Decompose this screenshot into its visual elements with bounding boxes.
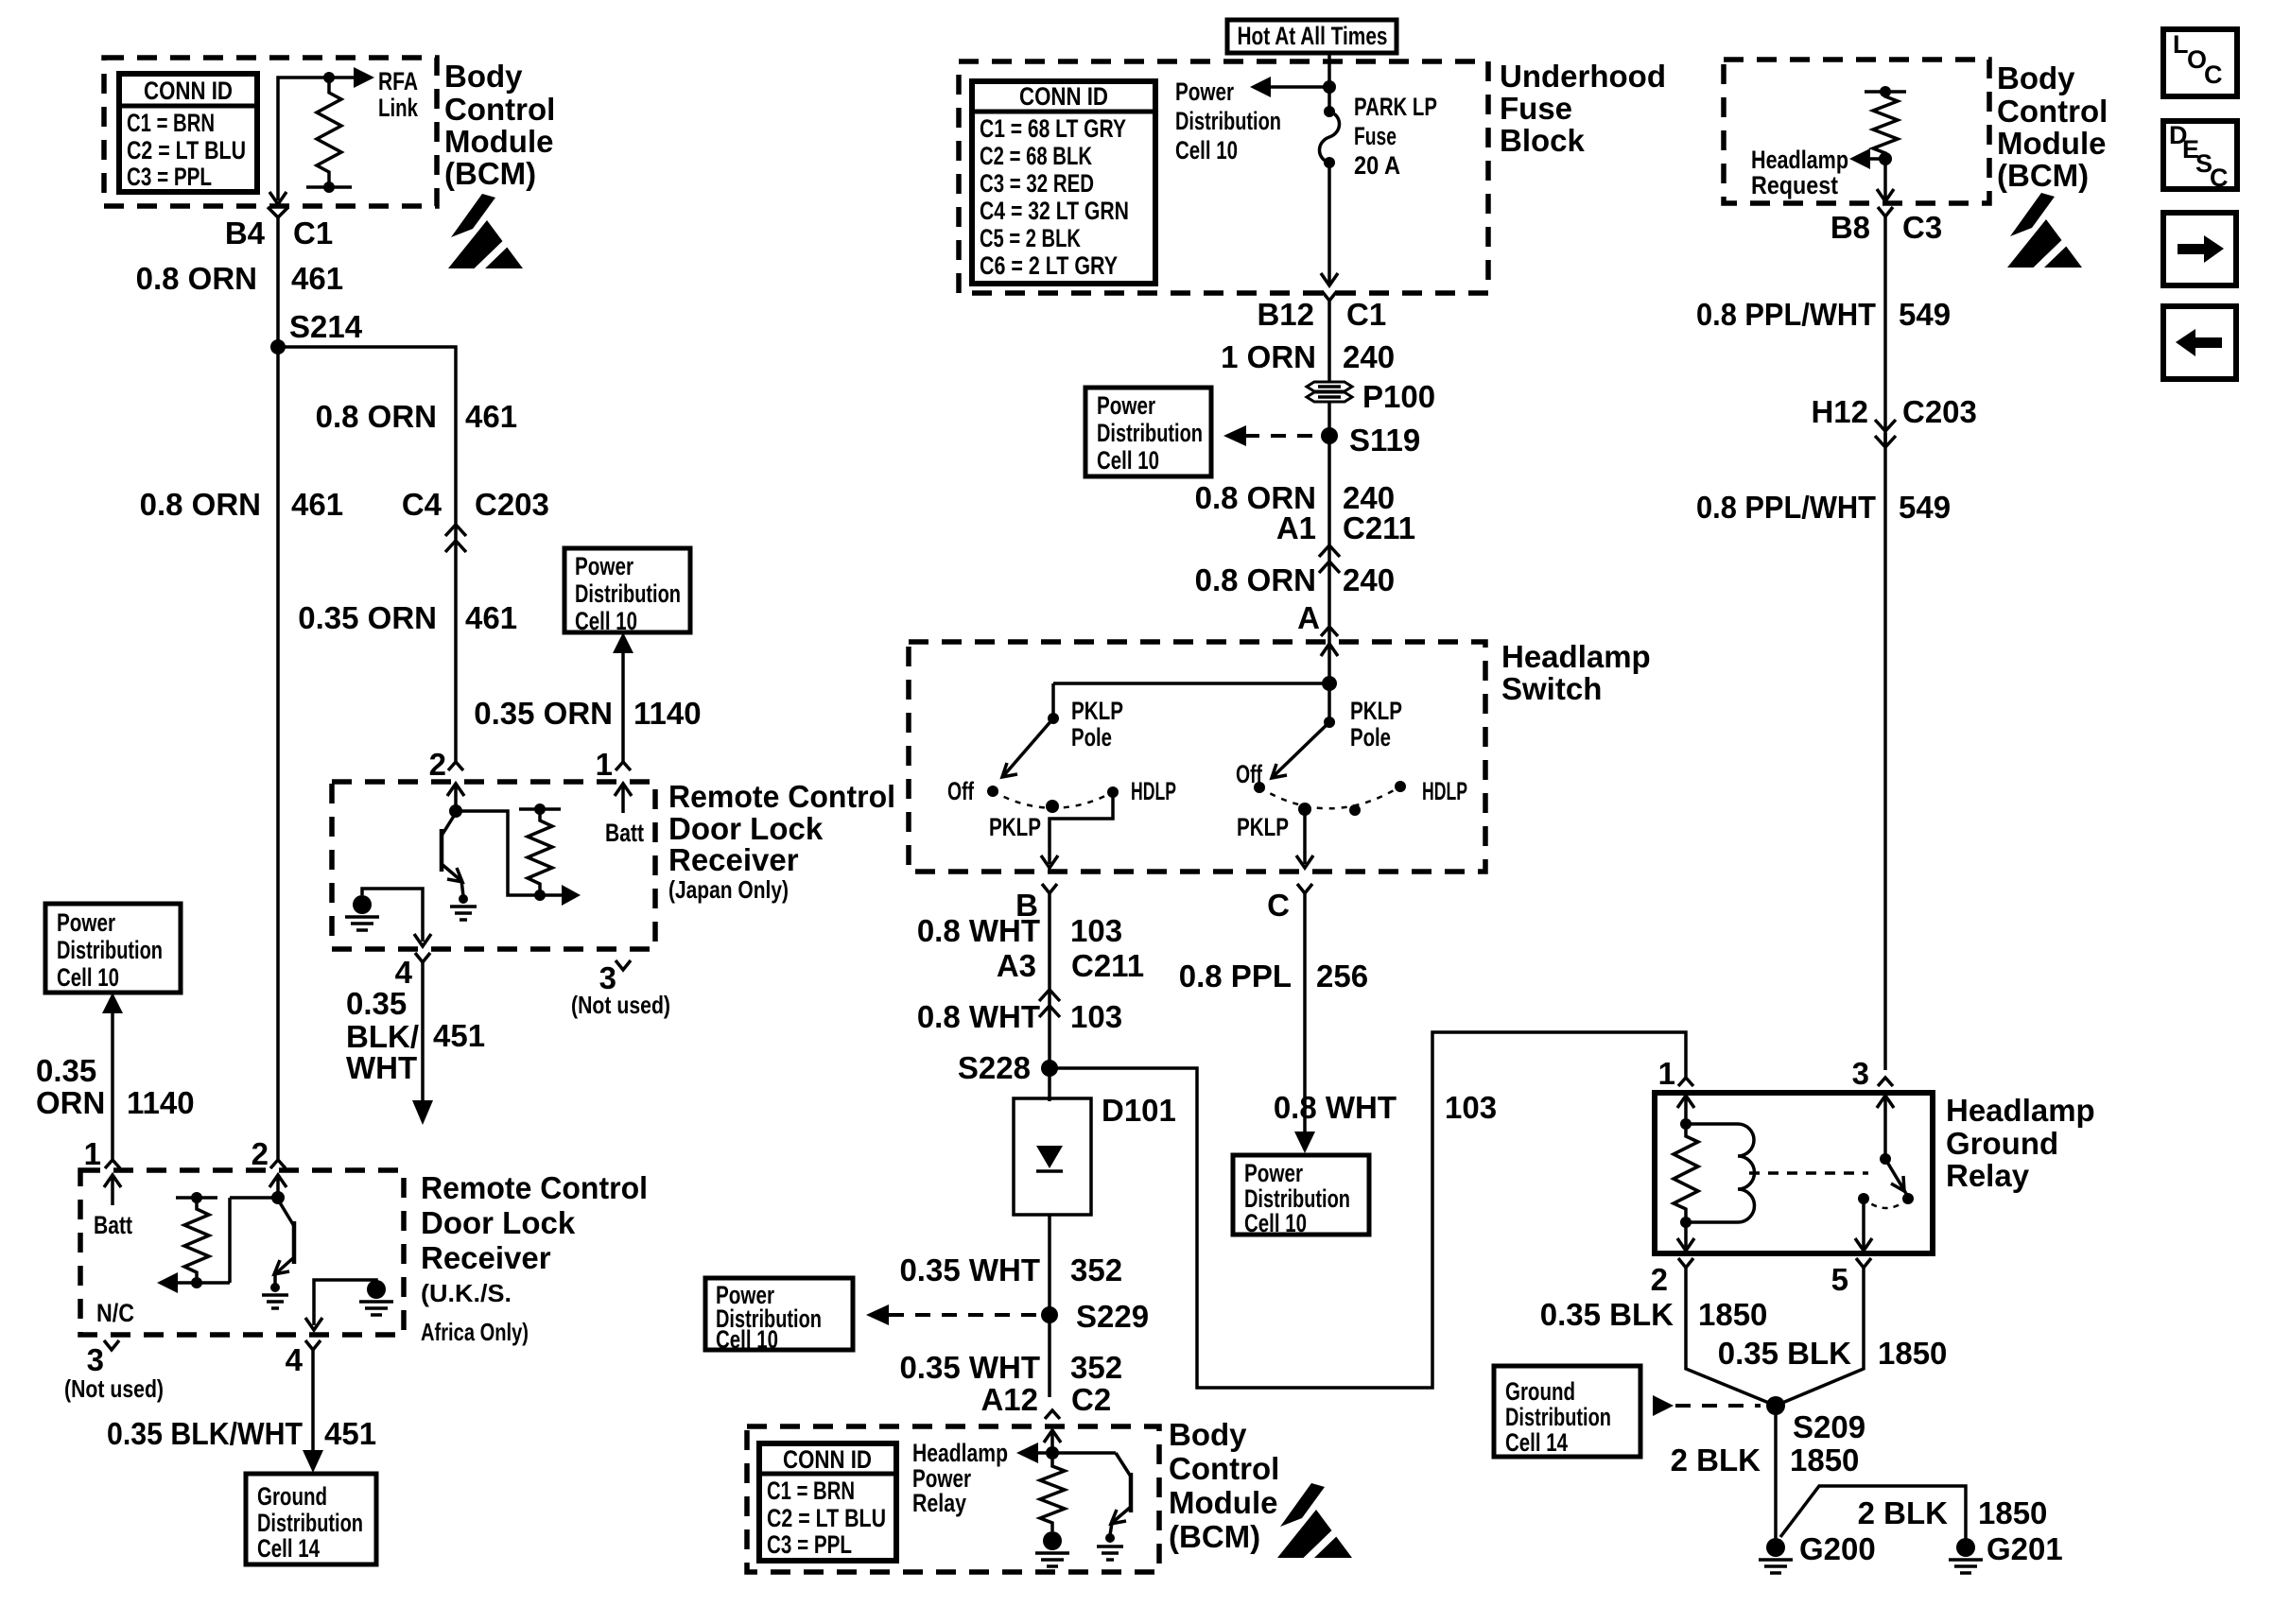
svg-text:2 BLK: 2 BLK <box>1858 1495 1949 1530</box>
svg-text:1850: 1850 <box>1978 1495 2047 1530</box>
svg-text:0.8 WHT: 0.8 WHT <box>917 913 1040 948</box>
Body Control Module (BCM) label <box>444 59 555 191</box>
svg-text:Remote Control: Remote Control <box>421 1170 648 1205</box>
node feed <box>1322 676 1337 691</box>
svg-text:(Not used): (Not used) <box>571 991 670 1019</box>
pin C arrow out <box>1296 855 1313 868</box>
svg-text:240: 240 <box>1343 339 1395 374</box>
svg-text:CONN ID: CONN ID <box>1019 82 1108 111</box>
svg-text:451: 451 <box>324 1416 376 1451</box>
svg-text:PKLP: PKLP <box>1350 697 1402 725</box>
svg-text:BLK/: BLK/ <box>346 1019 419 1054</box>
svg-text:103: 103 <box>1070 999 1122 1034</box>
wire BCM1 internal feed <box>278 78 329 200</box>
CONN ID table (BCM1) <box>119 74 257 192</box>
svg-text:C3 = 32 RED: C3 = 32 RED <box>980 169 1094 198</box>
pin 1 connector fork <box>616 762 631 770</box>
pin arrow out bottom (fuse block) <box>1321 273 1338 285</box>
svg-text:1: 1 <box>84 1136 101 1171</box>
right arrow box <box>2163 213 2236 285</box>
svg-text:0.35 BLK: 0.35 BLK <box>1540 1297 1674 1332</box>
svg-text:Hot At All Times: Hot At All Times <box>1238 22 1388 50</box>
wire fuse to edge <box>1327 163 1331 285</box>
dashed reference ground distribution <box>1675 1404 1761 1408</box>
dashed contact arc (right) <box>1259 786 1400 808</box>
svg-text:PKLP: PKLP <box>1071 697 1123 725</box>
svg-text:Distribution: Distribution <box>1505 1403 1611 1431</box>
ESD symbol BCM1 <box>448 194 526 275</box>
svg-text:(BCM): (BCM) <box>1169 1519 1260 1554</box>
arrow into power distribution (C wire) <box>1294 1132 1315 1153</box>
headlamp switch label <box>1501 639 1651 706</box>
svg-text:Power: Power <box>1175 78 1234 106</box>
arrow to power distribution (text) <box>1267 85 1329 89</box>
svg-text:Pole: Pole <box>1350 723 1391 752</box>
svg-text:256: 256 <box>1316 959 1368 993</box>
body control module (bottom) label <box>1169 1417 1279 1554</box>
svg-text:Module: Module <box>444 124 553 159</box>
svg-text:549: 549 <box>1899 490 1951 525</box>
pin 2 connector fork (UK) <box>270 1160 286 1168</box>
wire to output <box>456 811 565 895</box>
receiver (Japan) dashed box <box>332 782 655 949</box>
body control module (right) dashed box <box>1724 60 1989 203</box>
svg-text:Cell 10: Cell 10 <box>57 963 119 992</box>
arrow end of 451 wire <box>412 1100 433 1125</box>
svg-text:5: 5 <box>1831 1262 1848 1297</box>
svg-text:Request: Request <box>1751 171 1838 199</box>
svg-text:0.35 WHT: 0.35 WHT <box>899 1350 1040 1385</box>
svg-text:3: 3 <box>87 1342 104 1377</box>
CONN ID table (bottom BCM) <box>759 1443 896 1561</box>
wire branch to C203 <box>278 347 456 541</box>
svg-text:Ground: Ground <box>1505 1377 1575 1406</box>
DESC box <box>2163 121 2237 192</box>
wire 256 <box>1303 893 1307 1139</box>
svg-text:C: C <box>2210 164 2229 192</box>
svg-text:Pole: Pole <box>1071 723 1112 752</box>
power distribution box (S119) <box>1085 388 1211 476</box>
hot at all times box <box>1227 20 1397 53</box>
svg-text:461: 461 <box>291 261 343 296</box>
svg-text:C203: C203 <box>475 487 549 522</box>
svg-text:0.35 BLK: 0.35 BLK <box>1718 1336 1851 1371</box>
pin 1 arrow in <box>1677 1096 1694 1108</box>
svg-text:2 BLK: 2 BLK <box>1671 1443 1761 1477</box>
svg-text:Fuse: Fuse <box>1500 91 1572 126</box>
svg-text:1140: 1140 <box>127 1085 195 1120</box>
left pole arrow to Off <box>1004 718 1053 775</box>
svg-text:0.35 BLK/WHT: 0.35 BLK/WHT <box>107 1416 303 1451</box>
connector B <box>1042 884 1057 893</box>
svg-text:(Japan Only): (Japan Only) <box>668 875 789 904</box>
svg-text:549: 549 <box>1899 297 1951 332</box>
svg-text:C203: C203 <box>1902 394 1977 429</box>
svg-text:Cell 10: Cell 10 <box>575 607 637 635</box>
svg-text:Module: Module <box>1169 1485 1277 1520</box>
node headlamp request <box>1879 152 1892 165</box>
svg-text:Door Lock: Door Lock <box>668 811 824 846</box>
wire 1140 (lower) <box>111 1012 114 1160</box>
svg-text:0.8 ORN: 0.8 ORN <box>1195 562 1316 597</box>
svg-text:D101: D101 <box>1102 1093 1176 1128</box>
svg-text:C2 = LT BLU: C2 = LT BLU <box>767 1504 886 1532</box>
wire 1140 to pin1 <box>621 652 625 762</box>
dashed reference to power distribution (S229) <box>889 1313 1036 1317</box>
headlamp power relay arrow <box>1036 1451 1116 1455</box>
svg-text:240: 240 <box>1343 562 1395 597</box>
transistor Q (Japan) <box>442 813 463 896</box>
svg-text:B12: B12 <box>1257 297 1314 332</box>
svg-text:B8: B8 <box>1831 210 1870 245</box>
svg-text:Power: Power <box>1244 1159 1303 1187</box>
headlamp ground relay box <box>1655 1093 1933 1253</box>
svg-text:Cell 10: Cell 10 <box>1097 446 1159 475</box>
pin A arrow in <box>1321 644 1338 656</box>
svg-text:0.35 ORN: 0.35 ORN <box>298 600 437 635</box>
svg-text:Receiver: Receiver <box>421 1240 551 1275</box>
svg-text:1140: 1140 <box>633 696 702 731</box>
receiver (UK) dashed box <box>80 1170 404 1335</box>
svg-text:Cell 10: Cell 10 <box>1244 1209 1307 1237</box>
connector B12/C1 <box>1322 291 1337 301</box>
pin 4 arrow out <box>414 934 431 946</box>
pin 4 connector fork (UK) <box>305 1340 321 1350</box>
svg-text:A12: A12 <box>980 1382 1038 1417</box>
svg-text:0.8 WHT: 0.8 WHT <box>917 999 1040 1034</box>
svg-text:461: 461 <box>291 487 343 522</box>
svg-text:A1: A1 <box>1276 510 1316 545</box>
ground distribution cell 14 box (right) <box>1494 1366 1640 1457</box>
svg-text:(BCM): (BCM) <box>444 156 536 191</box>
pin 5 connector fork <box>1856 1258 1871 1268</box>
headlamp switch dashed box <box>909 642 1485 872</box>
body control module (bottom) dashed box <box>747 1426 1159 1572</box>
svg-text:Remote Control: Remote Control <box>668 779 895 814</box>
pin 4 connector fork <box>415 953 430 962</box>
pin 3 connector fork <box>1878 1078 1893 1086</box>
svg-text:Module: Module <box>1997 126 2106 161</box>
svg-text:S119: S119 <box>1349 423 1420 458</box>
svg-text:Relay: Relay <box>912 1489 966 1517</box>
svg-text:1850: 1850 <box>1790 1443 1859 1477</box>
Batt arrow pin 1 (Japan) <box>615 784 632 796</box>
ground (left Japan) <box>345 895 379 930</box>
svg-text:Cell 14: Cell 14 <box>1505 1428 1568 1457</box>
svg-text:1850: 1850 <box>1698 1297 1767 1332</box>
connector C <box>1297 884 1312 893</box>
ground (transistor bottom BCM) <box>1097 1533 1123 1560</box>
svg-text:C: C <box>1267 888 1290 923</box>
svg-text:461: 461 <box>465 399 517 434</box>
svg-text:WHT: WHT <box>346 1050 417 1085</box>
receiver (Japan) label <box>668 779 895 904</box>
N/C arrow and link wire (UK) <box>230 1196 278 1200</box>
relay switch <box>1880 1153 1891 1165</box>
pin 1 connector fork (UK) <box>105 1160 120 1168</box>
receiver (UK) label <box>421 1170 648 1346</box>
power distribution box (mid-left) <box>564 548 690 635</box>
svg-text:1: 1 <box>596 747 613 782</box>
node power dist tap <box>1323 80 1336 94</box>
svg-text:PKLP: PKLP <box>989 813 1041 841</box>
svg-text:0.35 ORN: 0.35 ORN <box>474 696 613 731</box>
node RFA link bottom <box>323 181 335 193</box>
svg-text:Control: Control <box>1169 1451 1279 1486</box>
pin B arrow out <box>1041 855 1058 868</box>
svg-text:B4: B4 <box>225 216 266 251</box>
svg-text:S229: S229 <box>1076 1299 1149 1334</box>
node <box>1046 1446 1059 1460</box>
svg-text:20 A: 20 A <box>1354 151 1400 180</box>
wire 461 branch lower <box>454 541 458 762</box>
svg-text:C: C <box>2204 60 2223 89</box>
svg-text:Off: Off <box>947 777 975 805</box>
pin 2 connector fork <box>448 762 463 770</box>
splice S229 <box>1041 1306 1058 1323</box>
svg-text:C3 = PPL: C3 = PPL <box>127 163 212 191</box>
svg-text:(BCM): (BCM) <box>1997 158 2089 193</box>
svg-text:Power: Power <box>575 552 633 580</box>
svg-text:C2 = LT BLU: C2 = LT BLU <box>127 136 246 164</box>
left pole <box>1051 683 1055 718</box>
left contacts Off/PKLP/HDLP <box>987 786 998 797</box>
pin 3 connector (Japan, not used) <box>616 960 631 970</box>
connector B8/C3 <box>1878 207 1893 216</box>
svg-text:103: 103 <box>1445 1090 1497 1125</box>
svg-text:Relay: Relay <box>1946 1158 2030 1193</box>
pin A12 arrow in <box>1044 1430 1061 1443</box>
right ground (UK) <box>314 1280 393 1325</box>
diode D101 <box>1014 1093 1176 1215</box>
body control module BCM1 dashed box <box>104 58 437 206</box>
svg-text:Control: Control <box>444 92 555 127</box>
svg-text:Distribution: Distribution <box>575 579 681 608</box>
svg-text:C4 = 32 LT GRN: C4 = 32 LT GRN <box>980 197 1129 225</box>
arrow up into power distribution box <box>613 632 633 653</box>
svg-text:Distribution: Distribution <box>257 1509 363 1537</box>
svg-text:HDLP: HDLP <box>1131 777 1176 805</box>
svg-text:Door Lock: Door Lock <box>421 1205 576 1240</box>
ground ball (bottom BCM) <box>1035 1531 1069 1566</box>
headlamp ground relay label <box>1946 1093 2095 1193</box>
svg-text:2: 2 <box>252 1136 269 1171</box>
svg-text:C1: C1 <box>1346 297 1386 332</box>
svg-text:Cell 14: Cell 14 <box>257 1534 320 1563</box>
underhood fuse block dashed box <box>959 61 1488 293</box>
resistor (bottom BCM) <box>1040 1460 1065 1531</box>
svg-text:(U.K./S.: (U.K./S. <box>421 1279 512 1307</box>
pin 1 Batt arrow in (UK) <box>104 1175 121 1187</box>
svg-text:H12: H12 <box>1811 394 1868 429</box>
svg-text:A: A <box>1297 600 1320 635</box>
relay resistor <box>1680 1118 1692 1130</box>
node on RFA link top <box>323 72 335 83</box>
left arrow box <box>2163 306 2236 379</box>
svg-text:Headlamp: Headlamp <box>912 1439 1008 1467</box>
pin 2 arrow out <box>1684 1222 1688 1250</box>
svg-text:C6 = 2 LT GRY: C6 = 2 LT GRY <box>980 251 1118 280</box>
wire pin2 to S209 <box>1686 1268 1776 1406</box>
transistor (bottom BCM) <box>1110 1453 1131 1535</box>
pin 3 arrow in <box>1877 1096 1894 1108</box>
svg-text:0.35: 0.35 <box>346 986 407 1021</box>
svg-text:ORN: ORN <box>36 1085 105 1120</box>
svg-text:PARK LP: PARK LP <box>1354 93 1437 121</box>
svg-text:C1 = 68 LT GRY: C1 = 68 LT GRY <box>980 114 1126 143</box>
svg-text:1850: 1850 <box>1878 1336 1947 1371</box>
svg-text:C1: C1 <box>293 216 333 251</box>
resistor (headlamp request) <box>1865 90 1906 94</box>
svg-text:0.8 PPL/WHT: 0.8 PPL/WHT <box>1696 490 1876 525</box>
svg-text:1: 1 <box>1658 1056 1675 1091</box>
pin 2 arrow in (UK) <box>269 1175 286 1187</box>
wire feed to left pole <box>1053 682 1329 685</box>
svg-text:Ground: Ground <box>257 1482 327 1511</box>
svg-text:4: 4 <box>286 1342 304 1377</box>
svg-text:Headlamp: Headlamp <box>1501 639 1651 674</box>
wire S228 to relay pin 1 <box>1050 1032 1686 1388</box>
svg-text:0.8 ORN: 0.8 ORN <box>140 487 261 522</box>
svg-text:0.8 ORN: 0.8 ORN <box>136 261 257 296</box>
CONN ID table (fuse block) <box>972 81 1155 284</box>
pin 2 arrow in <box>447 784 464 796</box>
svg-text:352: 352 <box>1070 1350 1122 1385</box>
ground G200 <box>1759 1538 1793 1573</box>
svg-text:Body: Body <box>1997 60 2075 95</box>
splice S119 <box>1321 427 1338 444</box>
fuse PARK LP 20A <box>1320 106 1340 168</box>
svg-text:PKLP: PKLP <box>1237 813 1289 841</box>
svg-text:(Not used): (Not used) <box>64 1374 164 1403</box>
svg-text:0.35: 0.35 <box>36 1053 96 1088</box>
svg-text:Off: Off <box>1236 760 1263 788</box>
svg-text:0.8 ORN: 0.8 ORN <box>316 399 437 434</box>
arrow into ground distribution box <box>303 1450 323 1473</box>
splice S209 <box>1766 1396 1785 1415</box>
svg-text:Body: Body <box>444 59 523 94</box>
ground distribution cell 14 box <box>246 1474 376 1564</box>
svg-text:S214: S214 <box>289 309 363 344</box>
relay coil <box>1686 1122 1738 1126</box>
power distribution box (lower-left) <box>45 904 181 993</box>
power distribution cell 10 text (fuse block) <box>1175 78 1281 164</box>
branch wire to G201 <box>1780 1486 1966 1539</box>
svg-text:N/C: N/C <box>96 1299 134 1327</box>
svg-text:103: 103 <box>1070 913 1122 948</box>
wire hot feed <box>1327 53 1331 112</box>
svg-text:HDLP: HDLP <box>1422 777 1467 805</box>
svg-text:C2: C2 <box>1071 1382 1111 1417</box>
svg-text:Headlamp: Headlamp <box>1946 1093 2095 1128</box>
svg-text:S228: S228 <box>958 1050 1031 1085</box>
resistor (UK) <box>176 1196 217 1200</box>
dashed reference to power distribution <box>1244 434 1318 438</box>
svg-text:CONN ID: CONN ID <box>783 1445 872 1474</box>
node <box>449 804 462 818</box>
svg-text:Cell 10: Cell 10 <box>716 1325 778 1354</box>
svg-text:S209: S209 <box>1793 1409 1865 1444</box>
dashed contact arc (left) <box>993 791 1113 808</box>
ground G201 <box>1949 1538 1983 1573</box>
svg-text:Batt: Batt <box>605 819 644 847</box>
headlamp request arrow <box>1868 157 1885 161</box>
svg-text:Africa Only): Africa Only) <box>421 1318 529 1346</box>
resistor RFA link <box>317 78 341 187</box>
svg-text:P100: P100 <box>1362 379 1435 414</box>
svg-text:Headlamp: Headlamp <box>1751 146 1848 174</box>
pin 1 connector fork <box>1678 1078 1693 1086</box>
svg-text:0.35 WHT: 0.35 WHT <box>899 1253 1040 1287</box>
svg-text:Cell 10: Cell 10 <box>1175 136 1238 164</box>
svg-text:Distribution: Distribution <box>1175 107 1281 135</box>
right pole <box>1327 683 1331 722</box>
svg-text:352: 352 <box>1070 1253 1122 1287</box>
ground (transistor Japan) <box>450 894 477 920</box>
wire 549 upper <box>1883 216 1887 444</box>
body control module (right) label <box>1997 60 2108 193</box>
svg-text:Batt: Batt <box>94 1211 132 1239</box>
pin 4 arrow out (UK) <box>305 1318 322 1330</box>
svg-text:4: 4 <box>395 955 413 990</box>
svg-text:CONN ID: CONN ID <box>144 77 233 105</box>
svg-text:C2 = 68 BLK: C2 = 68 BLK <box>980 142 1092 170</box>
svg-text:C4: C4 <box>402 487 442 522</box>
svg-text:G200: G200 <box>1799 1531 1876 1566</box>
wire 240 (1 ORN) <box>1327 301 1331 382</box>
wire S209 to G200 <box>1774 1406 1778 1539</box>
svg-text:Distribution: Distribution <box>57 936 163 964</box>
pin arrow out bottom of BCM1 <box>269 192 286 204</box>
svg-text:Receiver: Receiver <box>668 842 799 877</box>
wire pin5 to S209 <box>1776 1268 1864 1406</box>
right contacts <box>1254 782 1265 793</box>
svg-text:A3: A3 <box>997 948 1036 983</box>
wire 549 lower <box>1883 433 1887 1070</box>
ESD symbol (bottom BCM) <box>1277 1483 1355 1564</box>
power distribution box (C wire) <box>1233 1155 1369 1237</box>
pin 5 arrow out <box>1862 1199 1865 1250</box>
right pole arrow to Off <box>1274 722 1329 776</box>
svg-text:RFA: RFA <box>378 67 418 95</box>
wire D101 to S229 <box>1048 1215 1051 1397</box>
svg-text:Switch: Switch <box>1501 671 1602 706</box>
right output from PKLP <box>1303 809 1307 864</box>
node (UK collector) <box>271 1191 285 1204</box>
svg-text:Ground: Ground <box>1946 1126 2058 1161</box>
svg-text:Body: Body <box>1169 1417 1247 1452</box>
svg-text:461: 461 <box>465 600 517 635</box>
ESD symbol (right BCM) <box>2007 193 2085 274</box>
svg-text:2: 2 <box>1651 1262 1668 1297</box>
relay dashed actuator line <box>1749 1171 1868 1175</box>
power distribution box (S229) <box>705 1278 853 1354</box>
pin B8 arrow out <box>1883 159 1887 200</box>
svg-text:Link: Link <box>378 94 419 122</box>
resistor (Japan) <box>519 807 561 811</box>
svg-text:C1 = BRN: C1 = BRN <box>127 109 215 137</box>
svg-text:2: 2 <box>429 747 446 782</box>
svg-text:0.8 PPL/WHT: 0.8 PPL/WHT <box>1696 297 1876 332</box>
svg-text:Fuse: Fuse <box>1354 122 1397 150</box>
output arrow <box>562 885 581 906</box>
svg-text:Power: Power <box>1097 391 1155 420</box>
svg-text:G201: G201 <box>1987 1531 2063 1566</box>
pass-through grommet P100 <box>1307 382 1352 402</box>
svg-text:3: 3 <box>1852 1056 1869 1091</box>
svg-text:C3: C3 <box>1902 210 1942 245</box>
ground (transistor UK) <box>262 1283 288 1308</box>
